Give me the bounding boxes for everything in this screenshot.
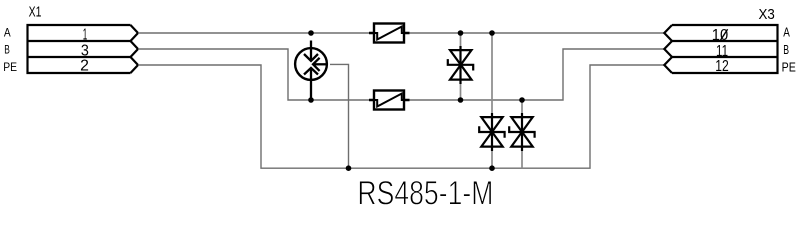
connector X1 — [28, 25, 139, 73]
TVS diode D1 — [448, 46, 473, 84]
gas discharge tube F1 — [295, 41, 328, 101]
svg-text:B: B — [783, 43, 789, 57]
svg-text:2: 2 — [80, 58, 89, 75]
svg-text:PE: PE — [3, 60, 17, 74]
wire B net — [138, 49, 664, 100]
wire A net — [138, 32, 664, 34]
wire PE net — [138, 65, 664, 168]
TVS diode D3 — [509, 113, 534, 151]
connector X3 — [664, 25, 777, 73]
junction dot arrester center / node PE — [346, 165, 352, 171]
junction dot D1 top — [458, 30, 464, 36]
svg-text:PE: PE — [782, 61, 796, 75]
pin 10 zero slash — [720, 29, 727, 40]
junction dot arrester bottom / node B — [308, 97, 314, 103]
junction dot arrester top / node A — [308, 30, 314, 36]
junction dot D3 top — [519, 97, 525, 103]
svg-text:1: 1 — [83, 26, 88, 43]
svg-text:B: B — [4, 43, 10, 57]
PTC resistor R2 — [369, 91, 410, 110]
svg-text:X1: X1 — [29, 4, 42, 21]
svg-text:X3: X3 — [759, 6, 775, 23]
wire TVS D2 vertical — [491, 33, 493, 168]
svg-text:RS485-1-M: RS485-1-M — [357, 174, 493, 212]
junction dot D1 bottom — [458, 97, 464, 103]
junction dot D2 bottom — [489, 165, 495, 171]
wire arrester center to PE — [330, 64, 349, 168]
svg-text:10: 10 — [712, 27, 728, 44]
TVS diode D2 — [479, 113, 504, 151]
wire TVS D1 vertical — [460, 33, 462, 100]
svg-text:12: 12 — [715, 58, 729, 75]
wire TVS D3 vertical — [521, 100, 523, 168]
svg-text:A: A — [783, 26, 790, 40]
svg-text:A: A — [4, 26, 11, 40]
PTC resistor R1 — [369, 24, 410, 43]
junction dot D2 top — [489, 30, 495, 36]
